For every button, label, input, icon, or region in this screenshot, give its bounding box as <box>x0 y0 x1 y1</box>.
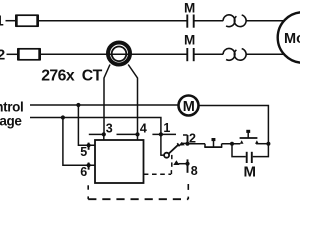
terminal 4 lug <box>117 133 138 135</box>
svg-text:M: M <box>183 99 195 115</box>
svg-text:M: M <box>184 33 195 48</box>
wire fuse2 through CT to contact M2 <box>41 53 187 55</box>
contact 2 triangle <box>178 142 185 146</box>
terminal 2 post <box>187 135 189 144</box>
terminal 2 top stub <box>183 134 188 136</box>
terminal 6 post <box>88 163 90 170</box>
aux contact M bar left <box>246 152 248 163</box>
svg-text:8: 8 <box>191 164 198 178</box>
aux contact branch left <box>232 144 246 157</box>
junction dot on control line 2 <box>61 115 65 119</box>
start button cap <box>246 130 250 133</box>
fuse F1 <box>15 15 39 27</box>
stop button bridge bar <box>204 146 222 148</box>
contact M2 (NO) <box>187 48 193 61</box>
aux contact branch right <box>253 144 269 157</box>
start button right contact triangle <box>255 140 259 144</box>
contact 8 triangle <box>173 160 179 165</box>
relay coil box <box>95 140 144 183</box>
wire L2 to fuse 2 <box>7 53 18 55</box>
control line 1 wire <box>30 104 178 106</box>
stop button stem <box>213 141 215 147</box>
overload heater OL1 <box>223 15 246 27</box>
wire contact M2 to overload OL2 <box>194 53 224 55</box>
terminal 1 dot <box>159 132 163 136</box>
start button left contact triangle <box>240 140 244 144</box>
svg-text:6: 6 <box>80 165 87 179</box>
start button stem <box>247 133 249 138</box>
wire to terminal 5 <box>78 105 95 145</box>
wire L1 to fuse 1 <box>6 20 16 22</box>
terminal 3 lug <box>89 133 104 135</box>
terminal 8 junction dot <box>185 162 189 166</box>
terminal 4 stub into box <box>137 134 139 140</box>
svg-text:4: 4 <box>140 122 147 136</box>
terminal 3 dot <box>102 132 106 136</box>
junction dot on control line 1 <box>76 103 80 107</box>
stop button left tick <box>204 144 206 147</box>
wire terminal 2 to stop button <box>188 143 206 145</box>
svg-text:3: 3 <box>106 122 113 136</box>
terminal 3 stub into box <box>103 134 105 140</box>
contact M1 (NO) <box>187 15 193 28</box>
terminal 5 post <box>88 143 90 150</box>
wire OL1 to motor <box>246 20 284 22</box>
wire stop button to junction <box>222 143 241 145</box>
control line 2 wire <box>30 118 161 156</box>
wire contact M1 to overload OL1 <box>194 20 224 22</box>
start button bar <box>240 137 258 139</box>
junction dot right of start button <box>266 142 270 146</box>
svg-text:Motor: Motor <box>284 31 300 47</box>
wire coil M to right then down <box>199 106 269 144</box>
switch blade <box>169 145 179 154</box>
svg-text:Control: Control <box>0 100 23 115</box>
dashed mechanical linkage vertical <box>170 155 172 174</box>
terminal 6 dot <box>87 163 91 167</box>
wire to terminal 6 <box>63 118 95 166</box>
wire start button right to junction <box>256 143 268 145</box>
terminal 1 lug <box>152 133 176 135</box>
CT inner circle <box>112 47 127 62</box>
svg-text:276x CT: 276x CT <box>41 68 102 85</box>
svg-text:M: M <box>244 163 257 180</box>
wire contact 2 to post 2 <box>182 142 188 144</box>
dashed enclosure right side <box>187 184 189 199</box>
aux contact M bar right <box>251 152 253 163</box>
wire contact 8 to post 8 <box>179 163 188 165</box>
switch pivot link <box>161 154 165 156</box>
svg-text:1: 1 <box>0 13 4 30</box>
dashed enclosure bottom <box>88 198 188 200</box>
wire OL2 to motor <box>246 53 284 55</box>
svg-text:voltage: voltage <box>0 113 22 128</box>
current transformer CT ring <box>108 43 130 65</box>
dashed mechanical linkage horizontal <box>144 173 171 175</box>
terminal 5 dot <box>87 143 91 147</box>
coil M circle <box>179 96 199 116</box>
svg-text:5: 5 <box>80 145 87 159</box>
svg-text:1: 1 <box>163 121 170 135</box>
terminal 4 dot <box>135 132 139 136</box>
terminal 2 junction dot <box>185 142 189 146</box>
stop button right tick <box>221 144 223 147</box>
dashed enclosure left side <box>87 185 89 199</box>
wire fuse1 to contact M1 <box>39 20 187 22</box>
CT secondary lead left <box>104 65 110 135</box>
svg-text:M: M <box>184 1 195 16</box>
switch pivot circle <box>164 153 169 158</box>
overload heater OL2 <box>223 48 246 60</box>
CT secondary lead right <box>128 65 137 135</box>
fuse F2 <box>17 48 41 60</box>
junction dot left of start button <box>230 142 234 146</box>
motor circle <box>278 12 320 63</box>
terminal 8 post <box>187 159 189 172</box>
stop button cap <box>212 138 216 141</box>
svg-text:2: 2 <box>0 46 5 63</box>
switch blade tip tick <box>177 143 179 146</box>
